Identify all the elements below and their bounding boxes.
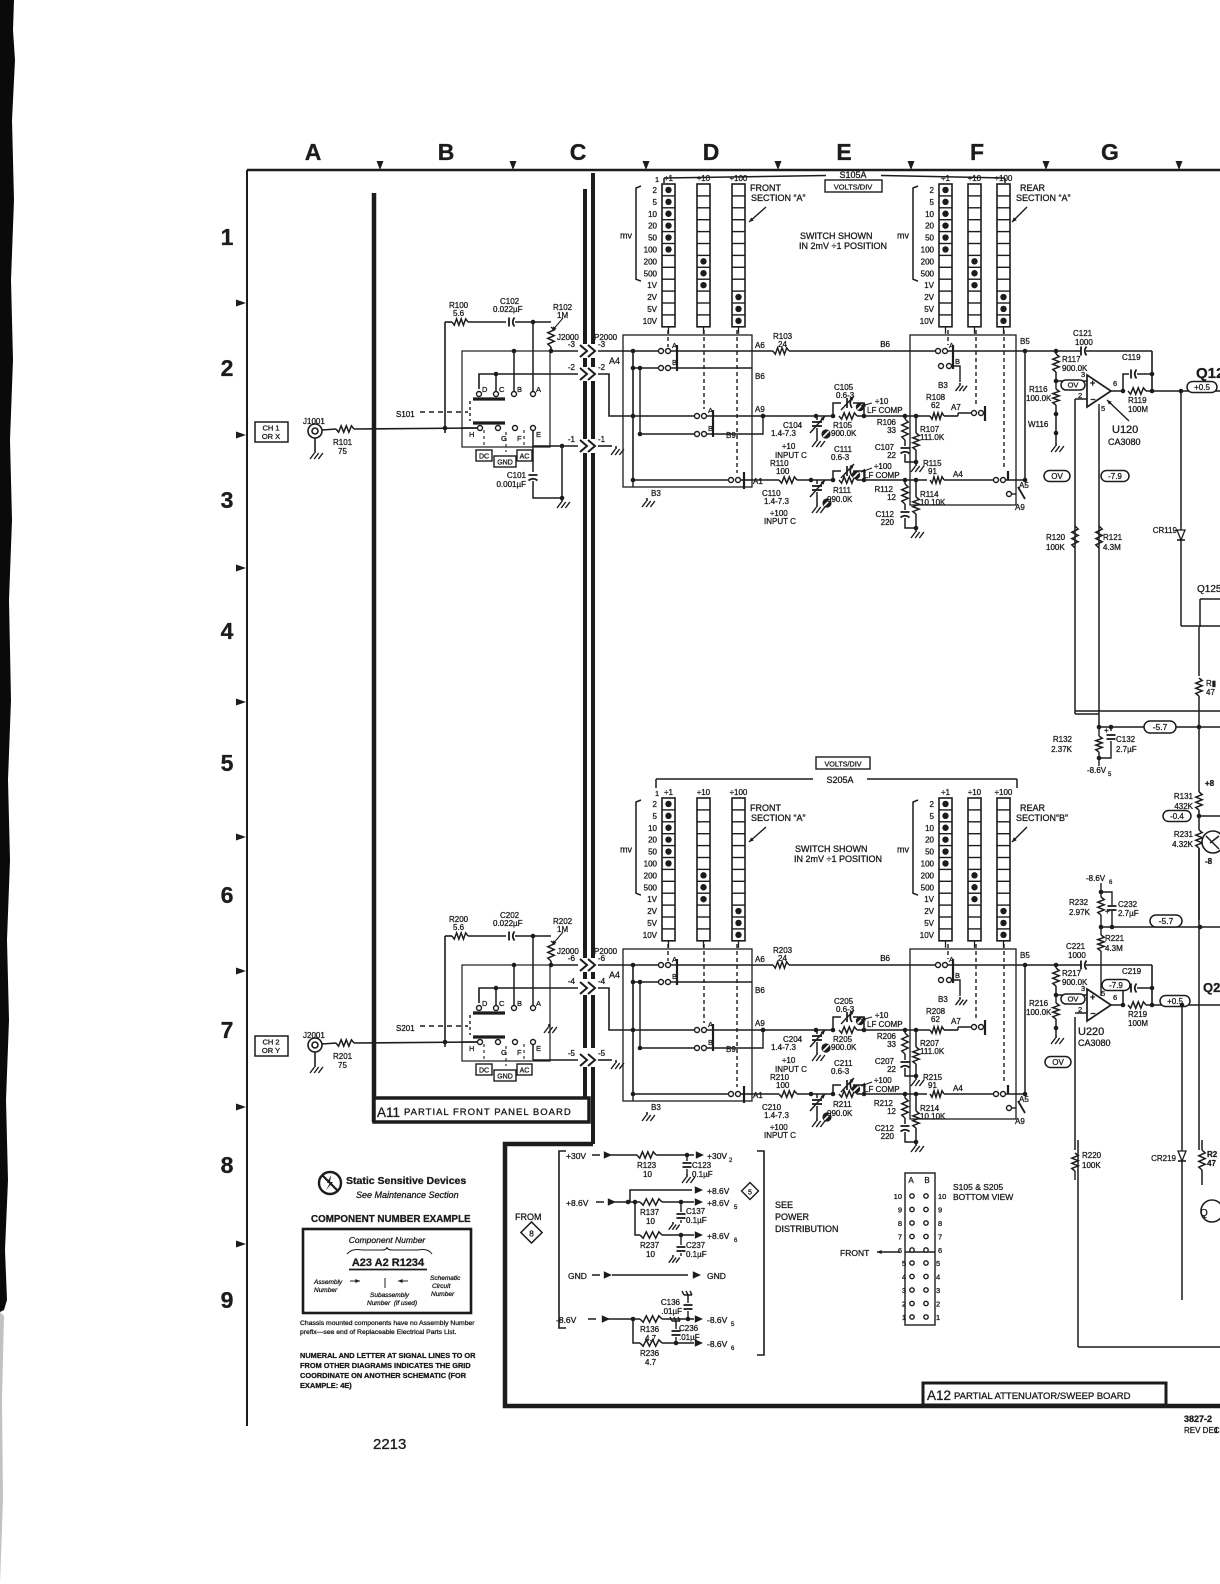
svg-text:A9: A9 <box>755 405 765 414</box>
svg-text:1: 1 <box>655 177 659 184</box>
svg-text:÷10: ÷10 <box>782 1056 796 1065</box>
trimmer capacitor C205 0.6-3 <box>833 997 864 1030</box>
svg-text:prefix—see end of Replaceable: prefix—see end of Replaceable Electrical… <box>300 1329 457 1336</box>
svg-text:EXAMPLE: 4E): EXAMPLE: 4E) <box>300 1381 352 1390</box>
svg-text:20: 20 <box>648 222 657 231</box>
div10 ladder wire <box>752 413 930 419</box>
svg-text:–: – <box>1091 1008 1096 1018</box>
resistor R231 4.32K <box>1172 816 1202 920</box>
svg-text:-5: -5 <box>598 1049 606 1058</box>
transistor label Q12 (cut) <box>1196 365 1220 382</box>
svg-text:0.1µF: 0.1µF <box>692 1170 713 1179</box>
transistor Q125 (cut at edge) <box>1181 584 1220 627</box>
svg-text:R111: R111 <box>833 486 851 495</box>
svg-text:A9: A9 <box>1015 503 1025 512</box>
div10 LF COMP note <box>861 1011 903 1029</box>
svg-text:R231: R231 <box>1174 830 1194 839</box>
connector labels J2000 P2000 (lower) <box>557 947 618 956</box>
resistor R216 100.0K <box>1026 995 1064 1044</box>
resistor R119 100M <box>1128 388 1152 414</box>
svg-text:A4: A4 <box>609 356 620 366</box>
svg-text:LF COMP: LF COMP <box>867 406 903 415</box>
svg-text:R232: R232 <box>1069 898 1089 907</box>
A11 board left edge (thick) <box>372 193 377 1122</box>
S105 S205 BOTTOM VIEW label <box>953 1182 1013 1202</box>
svg-text:÷1: ÷1 <box>664 788 673 797</box>
svg-text:R117: R117 <box>1062 355 1081 364</box>
svg-text:220: 220 <box>881 1132 895 1141</box>
resistor R107 111.0K <box>911 416 945 472</box>
svg-text:5.6: 5.6 <box>453 923 465 932</box>
svg-text:Q125: Q125 <box>1197 584 1220 595</box>
svg-text:A1: A1 <box>753 1091 763 1100</box>
svg-text:6: 6 <box>221 882 234 908</box>
svg-text:432K: 432K <box>1174 802 1193 811</box>
div10 LF COMP note <box>861 397 903 415</box>
svg-text:2.37K: 2.37K <box>1051 745 1073 754</box>
svg-text:5: 5 <box>930 812 935 821</box>
svg-text:100: 100 <box>776 1081 790 1090</box>
resistor R12x 47 (cut) <box>1196 627 1216 727</box>
capacitor C202 0.022uF <box>468 911 535 941</box>
svg-text:3: 3 <box>936 1286 940 1295</box>
capacitor C219 <box>1121 965 1155 1007</box>
coupling labels DC GND AC (S101) <box>476 450 532 467</box>
label -8.6V (cut) <box>1205 857 1213 866</box>
switch actuator dashed links (rear) <box>948 330 1004 470</box>
svg-text:4.3M: 4.3M <box>1105 944 1123 953</box>
svg-text:10: 10 <box>643 1170 652 1179</box>
svg-text:2: 2 <box>930 186 935 195</box>
svg-text:VOLTS/DIV: VOLTS/DIV <box>824 760 861 769</box>
svg-text:S205A: S205A <box>826 775 853 785</box>
svg-text:10V: 10V <box>920 317 935 326</box>
svg-text:100: 100 <box>644 859 658 868</box>
op-amp U120 <box>1056 370 1123 413</box>
svg-text:Component Number: Component Number <box>349 1235 427 1245</box>
svg-text:62: 62 <box>931 1015 940 1024</box>
svg-text:R220: R220 <box>1082 1151 1102 1160</box>
capacitor C123 0.1uF <box>682 1155 713 1183</box>
svg-text:10V: 10V <box>920 931 935 940</box>
svg-text:2: 2 <box>902 1300 906 1309</box>
ground at -1 connector <box>598 446 624 455</box>
contact row A1 (front) <box>631 472 752 489</box>
svg-text:2: 2 <box>936 1300 940 1309</box>
svg-text:C232: C232 <box>1118 900 1138 909</box>
svg-text:6: 6 <box>898 1246 902 1255</box>
contact A7 (rear) <box>972 1020 986 1035</box>
resistor R212 12 <box>874 1094 908 1124</box>
svg-text:+8.6V: +8.6V <box>707 1186 730 1196</box>
svg-text:+: + <box>1105 907 1110 916</box>
svg-text:FROM: FROM <box>515 1212 542 1222</box>
svg-text:A7: A7 <box>951 403 961 412</box>
trimmer capacitor C104 1.4-7.3 <box>771 416 831 460</box>
svg-text:C236: C236 <box>679 1324 699 1333</box>
svg-text:+8: +8 <box>1205 779 1215 788</box>
resistor R121 4.3M <box>1096 410 1123 727</box>
switch S205A rear section matrix <box>897 788 1013 948</box>
svg-text:5V: 5V <box>647 305 657 314</box>
svg-text:100M: 100M <box>1128 1019 1148 1028</box>
capacitor C232 2.7uF <box>1101 892 1139 927</box>
svg-text:S201: S201 <box>396 1024 415 1033</box>
svg-text:INPUT C: INPUT C <box>764 517 796 526</box>
resistor R136 4.7 (-8.6V5) <box>556 1315 735 1343</box>
svg-text:R2: R2 <box>1207 1150 1218 1159</box>
switch position note (upper) <box>799 231 887 251</box>
svg-text:100.0K: 100.0K <box>1026 394 1052 403</box>
svg-text:0.022µF: 0.022µF <box>493 919 523 928</box>
svg-text:+: + <box>1104 726 1109 735</box>
rear section B label (lower) <box>1012 803 1068 842</box>
svg-text:50: 50 <box>925 234 934 243</box>
svg-text:R116: R116 <box>1029 385 1048 394</box>
svg-text:R123: R123 <box>637 1161 657 1170</box>
svg-text:200: 200 <box>921 871 935 880</box>
svg-text:÷10: ÷10 <box>968 788 982 797</box>
svg-text:2.7µF: 2.7µF <box>1116 745 1137 754</box>
rear box right bus <box>1023 963 1028 1097</box>
svg-text:Assembly: Assembly <box>313 1279 343 1286</box>
svg-text:B6: B6 <box>755 986 765 995</box>
diode CR219 <box>1151 1003 1186 1300</box>
switch S101 upper contacts D C B A <box>470 322 541 423</box>
svg-text:C: C <box>570 139 587 165</box>
svg-text:+: + <box>1090 378 1095 388</box>
test voltage 0V at U220 pin3 <box>1061 994 1085 1004</box>
svg-text:Schematic: Schematic <box>430 1275 461 1282</box>
svg-text:SWITCH SHOWN: SWITCH SHOWN <box>800 231 873 241</box>
svg-text:1V: 1V <box>924 281 934 290</box>
svg-text:REAR: REAR <box>1020 183 1046 193</box>
switch S101 outline box <box>462 351 550 447</box>
svg-text:3: 3 <box>1081 370 1085 379</box>
svg-text:W116: W116 <box>1028 420 1049 429</box>
svg-text:B3: B3 <box>651 489 661 498</box>
svg-text:1: 1 <box>902 1313 906 1322</box>
svg-text:-1: -1 <box>568 435 576 444</box>
contact row A-A6 (front) <box>623 955 752 985</box>
svg-text:10: 10 <box>925 210 934 219</box>
svg-text:SECTION “A”: SECTION “A” <box>1016 193 1071 203</box>
switch actuator dashed links (front) <box>668 330 737 473</box>
svg-text:91: 91 <box>928 1081 937 1090</box>
test voltage +0.5 (U120) <box>1187 382 1217 393</box>
supply -8.6V5 (upper) <box>1087 762 1112 778</box>
svg-text:100K: 100K <box>1082 1161 1101 1170</box>
svg-text:.01µF: .01µF <box>661 1307 682 1316</box>
svg-text:R211: R211 <box>833 1100 852 1109</box>
svg-text:0.001µF: 0.001µF <box>496 480 526 489</box>
node B3 ground (front box) <box>633 1094 661 1121</box>
svg-text:A6: A6 <box>755 955 765 964</box>
resistor R210 100 <box>752 1073 927 1097</box>
svg-text:2: 2 <box>930 800 935 809</box>
svg-text:CR219: CR219 <box>1151 1154 1176 1163</box>
svg-text:IN 2mV ÷1 POSITION: IN 2mV ÷1 POSITION <box>794 854 882 864</box>
svg-text:.01µF: .01µF <box>679 1333 700 1342</box>
svg-text:C221: C221 <box>1066 942 1086 951</box>
svg-text:0.1µF: 0.1µF <box>686 1216 707 1225</box>
B9-A9 external tie <box>752 414 765 434</box>
resistor R112 12 <box>874 480 908 510</box>
capacitor C236 .01uF <box>670 1317 700 1343</box>
svg-text:2213: 2213 <box>373 1436 406 1453</box>
svg-text:÷10: ÷10 <box>697 788 711 797</box>
trimmer capacitor C204 1.4-7.3 <box>771 1030 831 1074</box>
wires S101 to connector <box>479 351 584 389</box>
capacitor C132 2.7uF <box>1099 725 1137 758</box>
svg-text:0.1µF: 0.1µF <box>686 1250 707 1259</box>
svg-text:-6: -6 <box>598 954 606 963</box>
svg-text:÷10: ÷10 <box>782 442 796 451</box>
svg-text:1V: 1V <box>924 895 934 904</box>
contact A5 (rear) <box>994 471 1030 490</box>
contact row B-B9 (front) <box>638 980 752 1051</box>
svg-text:+8.6V: +8.6V <box>707 1231 730 1241</box>
sheet title 2213 <box>373 1436 406 1453</box>
svg-text:5.6: 5.6 <box>453 309 465 318</box>
svg-text:R217: R217 <box>1062 969 1082 978</box>
resistor R201 75 <box>322 1040 477 1070</box>
svg-text:5: 5 <box>748 1190 752 1197</box>
resistor R116 100.0K <box>1026 381 1064 452</box>
svg-text:3827-2: 3827-2 <box>1184 1414 1212 1424</box>
binding edge strip <box>0 0 15 1584</box>
svg-text:÷1: ÷1 <box>941 788 950 797</box>
resistor R220 100K <box>1072 1151 1102 1180</box>
diode CR119 <box>1153 391 1185 626</box>
node B5 (U220) <box>1020 951 1058 967</box>
resistor R114 10.10K <box>911 480 946 538</box>
svg-text:5: 5 <box>653 812 658 821</box>
BNC connector J1001 <box>303 417 325 459</box>
svg-text:U220: U220 <box>1078 1026 1104 1038</box>
resistor R200 5.6 <box>445 915 469 1047</box>
svg-text:G: G <box>1101 139 1119 165</box>
static sensitive symbol <box>319 1172 341 1194</box>
svg-text:20: 20 <box>925 222 934 231</box>
+8.6V(5) feed <box>566 1183 758 1208</box>
node B3 ground (front box) <box>633 480 661 507</box>
svg-text:÷100: ÷100 <box>730 174 748 183</box>
jumper W116 <box>1028 420 1049 429</box>
svg-text:2.97K: 2.97K <box>1069 908 1091 917</box>
svg-text:OV: OV <box>1051 472 1063 481</box>
svg-text:mv: mv <box>620 231 632 241</box>
rail -5.7 (lower) <box>1099 915 1220 929</box>
svg-text:B6: B6 <box>880 340 890 349</box>
wire to -1 connector <box>533 445 584 447</box>
svg-text:D: D <box>703 139 720 165</box>
svg-text:22: 22 <box>887 451 896 460</box>
svg-text:200: 200 <box>644 257 658 266</box>
svg-text:5V: 5V <box>924 305 934 314</box>
svg-text:SECTION “A”: SECTION “A” <box>751 193 806 203</box>
resistor R205 900.0K <box>831 1035 857 1052</box>
switch S201 outline box <box>462 965 550 1061</box>
svg-text:+8.6V: +8.6V <box>707 1198 730 1208</box>
contact A5 (rear) <box>994 1085 1030 1104</box>
grid coordinate note <box>300 1351 476 1390</box>
svg-text:FRONT: FRONT <box>750 803 781 813</box>
svg-text:+: + <box>1090 992 1095 1002</box>
resistor R207 111.0K <box>911 1030 945 1086</box>
svg-text:50: 50 <box>648 234 657 243</box>
div100 LF COMP note <box>861 1076 900 1094</box>
svg-text:0.6-3: 0.6-3 <box>836 1005 855 1014</box>
svg-text:Number: Number <box>431 1291 455 1298</box>
svg-text:+8.6V: +8.6V <box>566 1198 589 1208</box>
svg-text:24: 24 <box>778 954 787 963</box>
svg-text:2V: 2V <box>924 907 934 916</box>
svg-text:C237: C237 <box>686 1241 706 1250</box>
chassis mounted note <box>300 1320 475 1336</box>
svg-text:-2: -2 <box>568 363 576 372</box>
svg-text:CA3080: CA3080 <box>1108 437 1141 447</box>
resistor R203 24 <box>752 946 935 968</box>
svg-text:7: 7 <box>898 1233 902 1242</box>
svg-text:OR X: OR X <box>262 432 280 441</box>
resistor R115 91 <box>923 459 993 483</box>
capacitor C207 22 <box>875 1057 916 1076</box>
contact row A-A6 (front) <box>623 341 752 371</box>
svg-text:100: 100 <box>644 245 658 254</box>
S205A designation and VOLTS/DIV box <box>656 757 1017 788</box>
svg-text:+30V: +30V <box>566 1151 586 1161</box>
svg-text:-6: -6 <box>568 954 576 963</box>
svg-text:10V: 10V <box>643 931 658 940</box>
resistor R123 10 (+30V feed) <box>566 1151 733 1179</box>
svg-text:B9: B9 <box>726 1045 736 1054</box>
svg-text:Number (if used): Number (if used) <box>367 1300 417 1307</box>
svg-text:5: 5 <box>902 1259 906 1268</box>
svg-text:S105 & S205: S105 & S205 <box>953 1182 1003 1192</box>
svg-text:1.4-7.3: 1.4-7.3 <box>764 1111 789 1120</box>
svg-text:4.32K: 4.32K <box>1172 840 1194 849</box>
rear section contact box outline <box>910 949 1016 1119</box>
svg-text:8: 8 <box>938 1219 942 1228</box>
contact row A-B5 (rear) <box>936 341 1026 369</box>
svg-text:10: 10 <box>925 824 934 833</box>
contact row B-B6 (front) <box>631 965 752 1094</box>
svg-text:PARTIAL FRONT PANEL BOARD: PARTIAL FRONT PANEL BOARD <box>404 1107 572 1118</box>
svg-text:–: – <box>1091 394 1096 404</box>
resistor R232 2.97K <box>1069 892 1104 927</box>
svg-text:1.4-7.3: 1.4-7.3 <box>764 497 789 506</box>
capacitor C121 1000 <box>1025 329 1152 356</box>
contact row A-B5 (rear) <box>936 955 1026 983</box>
svg-text:SEE: SEE <box>775 1200 793 1210</box>
connector S105/S205 bottom view <box>894 1173 947 1325</box>
Q225 stage box (cut at edge) <box>1078 1140 1220 1347</box>
svg-text:100M: 100M <box>1128 405 1148 414</box>
svg-text:91: 91 <box>928 467 937 476</box>
A12 board left boundary (thick) <box>591 173 595 1144</box>
svg-text:DISTRIBUTION: DISTRIBUTION <box>775 1224 839 1234</box>
grid border lines <box>247 170 1220 1426</box>
svg-text:1: 1 <box>936 1313 940 1322</box>
svg-text:S105A: S105A <box>839 170 866 180</box>
svg-text:47: 47 <box>1207 1159 1216 1168</box>
svg-text:A1: A1 <box>753 477 763 486</box>
svg-text:75: 75 <box>338 1061 347 1070</box>
svg-text:R201: R201 <box>333 1052 353 1061</box>
test voltage 0V (below U220) <box>1045 1057 1071 1068</box>
svg-text:0.6-3: 0.6-3 <box>831 453 850 462</box>
capacitor C237 0.1uF <box>669 1235 707 1263</box>
component number example box <box>303 1229 471 1313</box>
rear section A label (upper) <box>1012 183 1071 222</box>
svg-text:FRONT: FRONT <box>750 183 781 193</box>
capacitor C112 220 <box>875 510 916 528</box>
contact row A-A9 (front) <box>623 406 752 437</box>
wire -4 to attenuator <box>598 988 623 1030</box>
resistor R101 75 <box>322 426 477 456</box>
svg-text:Number: Number <box>314 1287 338 1294</box>
svg-text:A: A <box>305 139 322 165</box>
svg-text:10: 10 <box>894 1192 902 1201</box>
svg-text:0.022µF: 0.022µF <box>493 305 523 314</box>
svg-text:GND: GND <box>497 460 513 467</box>
wire right column (lower) <box>1198 848 1200 1150</box>
svg-text:F: F <box>517 1048 522 1057</box>
SEE POWER DISTRIBUTION note <box>775 1200 839 1234</box>
svg-text:B: B <box>438 139 455 165</box>
svg-text:-1: -1 <box>598 435 606 444</box>
svg-text:F: F <box>970 139 984 165</box>
svg-text:990.0K: 990.0K <box>827 495 853 504</box>
svg-text:+30V: +30V <box>707 1151 727 1161</box>
svg-text:7: 7 <box>221 1017 234 1043</box>
svg-text:DC: DC <box>479 1068 489 1075</box>
svg-text:5V: 5V <box>924 919 934 928</box>
trimmer capacitor C211 0.6-3 <box>831 1059 864 1094</box>
svg-text:500: 500 <box>921 883 935 892</box>
capacitor C101 0.001uF <box>496 431 569 508</box>
svg-text:E: E <box>836 139 851 165</box>
switch S105A rear section matrix <box>897 174 1013 334</box>
power section brackets <box>559 1151 764 1355</box>
test voltage -7.9 (U120 pin5) <box>1101 471 1129 482</box>
svg-text:A: A <box>536 385 541 394</box>
svg-text:8: 8 <box>529 1229 534 1239</box>
revision note <box>1184 1426 1220 1435</box>
supply -8.6V6 (lower cluster) <box>1086 874 1113 894</box>
svg-text:-8.6V: -8.6V <box>1086 874 1106 883</box>
svg-text:FRONT: FRONT <box>840 1248 869 1258</box>
svg-text:4: 4 <box>221 618 234 644</box>
svg-text:C132: C132 <box>1116 735 1136 744</box>
svg-text:62: 62 <box>931 401 940 410</box>
svg-text:REAR: REAR <box>1020 803 1046 813</box>
svg-text:100K: 100K <box>1046 543 1065 552</box>
contact row B-B9 (front) <box>638 366 752 437</box>
svg-text:-8.6V: -8.6V <box>1087 766 1107 775</box>
capacitor C137 0.1uF <box>669 1202 707 1230</box>
BNC connector J2001 <box>303 1031 325 1073</box>
svg-text:R120: R120 <box>1046 533 1066 542</box>
switch S101 lower contacts H G F E <box>462 426 541 453</box>
test voltage 0V (below U120) <box>1044 471 1070 482</box>
svg-text:R132: R132 <box>1053 735 1073 744</box>
svg-text:A5: A5 <box>1019 1095 1029 1104</box>
front section contact box outline <box>623 949 752 1101</box>
svg-text:-0.4: -0.4 <box>1170 812 1184 821</box>
svg-text:R237: R237 <box>640 1241 660 1250</box>
